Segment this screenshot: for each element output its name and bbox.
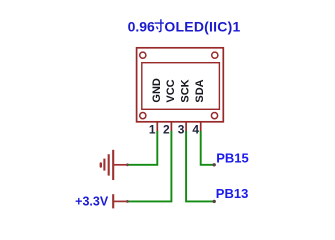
svg-text:SDA: SDA: [194, 79, 206, 102]
node PB13 wire end dot: [213, 200, 216, 203]
ground symbol: [101, 150, 128, 180]
svg-text:PB13: PB13: [216, 186, 249, 201]
U1 mounting hole bottom-left: [140, 113, 146, 119]
node PB15 wire end dot: [213, 163, 216, 166]
pin 3 stub: [185, 122, 187, 132]
svg-text:SCK: SCK: [180, 79, 192, 102]
svg-text:OLED(IIC)1: OLED(IIC)1: [164, 18, 240, 34]
wire pin4 to PB15: [201, 131, 214, 165]
svg-text:PB15: PB15: [216, 150, 249, 165]
wire pin2 to +3.3V: [127, 131, 171, 201]
svg-text:GND: GND: [151, 78, 163, 103]
svg-text:1: 1: [149, 122, 156, 136]
+3.3V power port: [75, 194, 127, 208]
+3.3V wire junction dot: [126, 200, 129, 203]
U1 mounting hole bottom-right: [211, 113, 217, 119]
U1 inner body rectangle: [142, 63, 220, 110]
pin 2 stub: [170, 122, 172, 132]
wire pin1 to ground: [127, 131, 157, 165]
pin 4 stub: [200, 122, 202, 132]
svg-text:2: 2: [163, 122, 170, 136]
U1 mounting hole top-right: [212, 52, 218, 58]
U1 mounting hole top-left: [140, 52, 146, 58]
svg-text:VCC: VCC: [165, 79, 177, 102]
ground wire junction dot: [126, 163, 129, 166]
pin 1 stub: [156, 122, 158, 132]
U1 title text 0.96寸OLED(IIC)1: [128, 18, 241, 34]
svg-text:0.96: 0.96: [128, 18, 155, 34]
svg-text:3: 3: [178, 122, 185, 136]
component U1 outer outline (0.96寸OLED module): [137, 48, 224, 122]
svg-text:4: 4: [192, 122, 199, 136]
svg-text:+3.3V: +3.3V: [75, 194, 109, 208]
wire pin3 to PB13: [186, 131, 214, 201]
